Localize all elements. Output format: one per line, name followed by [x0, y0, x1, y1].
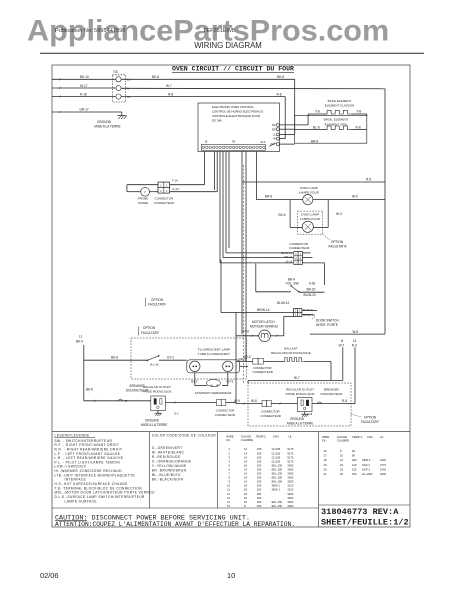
svg-text:R.-RED/ROUGE: R.-RED/ROUGE — [152, 455, 181, 459]
svg-text:MISE A LA TERRE: MISE A LA TERRE — [287, 422, 313, 426]
svg-text:CL/105: CL/105 — [272, 459, 281, 463]
svg-text:W-6: W-6 — [352, 195, 358, 199]
svg-text:PRISE MODULIQUE: PRISE MODULIQUE — [286, 392, 315, 396]
svg-text:2936: 2936 — [380, 472, 386, 476]
svg-text:BR: BR — [272, 127, 276, 131]
svg-text:EKL-150: EKL-150 — [272, 463, 283, 467]
svg-text:VOL. SW.: VOL. SW. — [286, 282, 300, 286]
svg-text:9175: 9175 — [287, 459, 293, 463]
svg-text:G.-GREEN/VERT: G.-GREEN/VERT — [152, 446, 183, 450]
svg-text:105: 105 — [257, 451, 262, 455]
svg-text:CSA: CSA — [367, 435, 373, 439]
svg-text:BALLAST: BALLAST — [284, 346, 298, 350]
svg-text:9175: 9175 — [287, 455, 293, 459]
svg-text:CONNECTOR: CONNECTOR — [253, 366, 272, 370]
svg-text:FLUORESCENT LAMP: FLUORESCENT LAMP — [198, 348, 230, 352]
svg-text:BK-6: BK-6 — [111, 356, 118, 360]
svg-text:Y-14: Y-14 — [172, 178, 178, 182]
svg-text:12: 12 — [227, 492, 230, 496]
svg-text:18: 18 — [244, 488, 247, 492]
svg-text:R-16: R-16 — [80, 93, 87, 97]
svg-text:CL/105: CL/105 — [272, 447, 281, 451]
svg-text:FIL: FIL — [226, 438, 230, 442]
svg-text:GL-1062: GL-1062 — [362, 472, 373, 476]
svg-text:BK-9: BK-9 — [76, 339, 83, 343]
svg-text:CONTROLE ELECTRONIQUE FOUR: CONTROLE ELECTRONIQUE FOUR — [212, 114, 260, 118]
svg-text:FIL: FIL — [322, 439, 326, 443]
svg-text:14: 14 — [227, 500, 230, 504]
svg-text:SONDE: SONDE — [138, 201, 148, 205]
svg-text:MISE A LA TERRE: MISE A LA TERRE — [141, 423, 167, 427]
svg-text:200: 200 — [352, 458, 357, 462]
svg-text:BL-8: BL-8 — [313, 126, 320, 130]
svg-text:T.B.: T.B. — [113, 70, 119, 74]
svg-text:G-14: G-14 — [286, 260, 293, 264]
svg-text:G-1: G-1 — [174, 412, 179, 416]
svg-text:13: 13 — [227, 496, 230, 500]
svg-text:16: 16 — [244, 496, 247, 500]
svg-text:150: 150 — [257, 504, 262, 508]
svg-text:Y-8: Y-8 — [356, 110, 361, 114]
svg-text:14: 14 — [244, 455, 247, 459]
svg-text:G-8: G-8 — [308, 412, 313, 416]
svg-text:14: 14 — [244, 472, 247, 476]
svg-text:BK-8: BK-8 — [277, 75, 284, 79]
svg-text:105: 105 — [257, 459, 262, 463]
svg-text:3003: 3003 — [287, 476, 293, 480]
svg-text:150: 150 — [257, 480, 262, 484]
svg-text:OPTION: OPTION — [364, 416, 377, 420]
svg-text:BK-10: BK-10 — [80, 75, 89, 79]
svg-text:BK-6: BK-6 — [279, 213, 286, 217]
svg-text:150: 150 — [257, 476, 262, 480]
svg-text:W-17: W-17 — [80, 84, 88, 88]
svg-text:UL: UL — [380, 435, 384, 439]
svg-text:16: 16 — [340, 458, 343, 462]
svg-text:BROIL ELEMENT: BROIL ELEMENT — [324, 118, 349, 122]
svg-text:CONNECTOR: CONNECTOR — [216, 409, 235, 413]
svg-text:Y-8: Y-8 — [315, 110, 320, 114]
svg-text:3122: 3122 — [380, 458, 386, 462]
svg-text:90: 90 — [352, 454, 355, 458]
svg-text:W-7: W-7 — [294, 376, 300, 380]
svg-text:10: 10 — [227, 571, 235, 580]
svg-text:BL/W-20: BL/W-20 — [304, 293, 316, 297]
svg-text:9175: 9175 — [287, 447, 293, 451]
svg-text:2773: 2773 — [380, 463, 386, 467]
svg-text:3122: 3122 — [287, 484, 293, 488]
svg-text:BAKE ELEMENT: BAKE ELEMENT — [328, 99, 352, 103]
svg-text:OVEN LAMP: OVEN LAMP — [300, 186, 318, 190]
svg-text:20: 20 — [340, 472, 343, 476]
svg-text:BREAKER: BREAKER — [324, 388, 340, 392]
svg-text:BK-6: BK-6 — [86, 388, 93, 392]
svg-text:PRISE MODULIQUE: PRISE MODULIQUE — [143, 390, 172, 394]
svg-text:150: 150 — [257, 463, 262, 467]
svg-text:OPTION: OPTION — [143, 326, 156, 330]
svg-text:OPTION: OPTION — [151, 298, 164, 302]
svg-text:CAN: CAN — [273, 435, 279, 439]
svg-text:14: 14 — [244, 451, 247, 455]
svg-text:TEF351EWB: TEF351EWB — [203, 28, 236, 34]
svg-text:MOTEUR VERROU: MOTEUR VERROU — [250, 324, 279, 328]
svg-text:FACULTATIF: FACULTATIF — [329, 245, 347, 249]
svg-text:SEW-1: SEW-1 — [362, 458, 371, 462]
svg-text:17: 17 — [324, 454, 327, 458]
svg-text:200: 200 — [257, 488, 262, 492]
svg-text:OR-14: OR-14 — [284, 255, 293, 259]
svg-text:BL.-BLUE/BLEU: BL.-BLUE/BLEU — [152, 473, 181, 477]
svg-text:GROUND: GROUND — [145, 418, 160, 422]
svg-text:BK.-BLACK/NOIR: BK.-BLACK/NOIR — [152, 477, 184, 481]
svg-text:R-8: R-8 — [277, 92, 282, 96]
svg-text:SEW 1: SEW 1 — [272, 488, 281, 492]
svg-text:3122: 3122 — [287, 488, 293, 492]
svg-text:14: 14 — [244, 459, 247, 463]
svg-text:W-7: W-7 — [339, 344, 345, 348]
svg-text:21: 21 — [324, 472, 327, 476]
svg-text:24: 24 — [340, 463, 343, 467]
svg-text:EKL-150: EKL-150 — [272, 500, 283, 504]
svg-text:DOOR SWITCH: DOOR SWITCH — [316, 319, 339, 323]
svg-text:SGF-1: SGF-1 — [362, 463, 370, 467]
svg-text:16: 16 — [324, 449, 327, 453]
svg-text:MOTOR LATCH: MOTOR LATCH — [252, 320, 275, 324]
svg-text:14: 14 — [244, 476, 247, 480]
svg-text:9175: 9175 — [287, 451, 293, 455]
svg-text:14: 14 — [244, 480, 247, 484]
svg-text:3452: 3452 — [287, 496, 293, 500]
svg-text:CONNECTEUR: CONNECTEUR — [154, 201, 174, 205]
svg-text:105: 105 — [257, 455, 262, 459]
svg-text:R-8: R-8 — [356, 126, 361, 130]
svg-text:WIRING DIAGRAM: WIRING DIAGRAM — [194, 41, 262, 50]
svg-text:Y.-YELLOW/JAUNE: Y.-YELLOW/JAUNE — [152, 464, 187, 468]
svg-text:IN: IN — [273, 137, 276, 141]
svg-text:20: 20 — [324, 467, 327, 471]
svg-text:105: 105 — [257, 447, 262, 451]
svg-text:Publication No: 5995447898: Publication No: 5995447898 — [55, 28, 125, 34]
svg-text:BL/W-14: BL/W-14 — [277, 301, 289, 305]
svg-text:SEW 1: SEW 1 — [272, 484, 281, 488]
svg-text:LAMPE FOUR: LAMPE FOUR — [300, 217, 321, 221]
svg-text:W.-WHITE/BLANC: W.-WHITE/BLANC — [152, 450, 185, 454]
svg-text:3003: 3003 — [287, 463, 293, 467]
svg-text:SHEET/FEUILLE:1/2: SHEET/FEUILLE:1/2 — [321, 518, 409, 528]
svg-text:GROUND: GROUND — [290, 417, 305, 421]
svg-text:200: 200 — [257, 484, 262, 488]
svg-text:STARTER? DEMARREUR: STARTER? DEMARREUR — [195, 391, 232, 395]
svg-text:B.L.W..: B.L.W.. — [150, 363, 160, 367]
svg-text:FACULTATIF: FACULTATIF — [361, 420, 379, 424]
svg-text:DISJONCTEUR: DISJONCTEUR — [321, 392, 344, 396]
svg-text:EKL-150: EKL-150 — [272, 504, 283, 508]
svg-text:TUBE FLUORESCENT: TUBE FLUORESCENT — [198, 352, 230, 356]
svg-text:3452: 3452 — [287, 492, 293, 496]
svg-text:GR-17: GR-17 — [80, 108, 90, 112]
svg-text:250: 250 — [257, 496, 262, 500]
svg-text:FACULTATIF: FACULTATIF — [148, 303, 166, 307]
svg-text:LEGEND/LEGENDE: LEGEND/LEGENDE — [55, 433, 90, 437]
svg-text:194: 194 — [352, 472, 357, 476]
svg-text:R-5: R-5 — [366, 178, 371, 182]
svg-text:R-8: R-8 — [342, 399, 347, 403]
svg-text:15: 15 — [227, 504, 230, 508]
svg-text:02/06: 02/06 — [40, 571, 59, 580]
svg-text:3003: 3003 — [287, 500, 293, 504]
svg-text:REGULATEUR PUISSANCE: REGULATEUR PUISSANCE — [271, 351, 311, 355]
svg-text:O.-ORANGE/ORANGE: O.-ORANGE/ORANGE — [152, 459, 192, 463]
svg-text:GY-1: GY-1 — [167, 356, 174, 360]
svg-text:L2: L2 — [353, 339, 357, 343]
svg-text:R-9: R-9 — [352, 344, 357, 348]
svg-text:CL/105: CL/105 — [272, 451, 281, 455]
svg-text:ATTENTION:COUPEZ L'ALIMENTATIO: ATTENTION:COUPEZ L'ALIMENTATION AVANT D'… — [55, 521, 295, 528]
svg-text:BK/W-14: BK/W-14 — [257, 308, 270, 312]
svg-text:L1: L1 — [79, 335, 83, 339]
svg-text:ELEMENT CUISSON: ELEMENT CUISSON — [325, 104, 355, 108]
svg-text:OVEN CIRCUIT // CIRCUIT DU FOU: OVEN CIRCUIT // CIRCUIT DU FOUR — [172, 66, 294, 73]
svg-text:CONNECTEUR: CONNECTEUR — [261, 414, 281, 418]
svg-text:BK-8: BK-8 — [152, 75, 159, 79]
svg-text:t°: t° — [144, 190, 146, 194]
svg-text:BR-6: BR-6 — [265, 195, 272, 199]
svg-text:120: 120 — [352, 463, 357, 467]
svg-text:GR-5: GR-5 — [243, 355, 251, 359]
svg-text:CONNECTEUR: CONNECTEUR — [253, 370, 273, 374]
svg-text:FACULTATIF: FACULTATIF — [141, 331, 159, 335]
svg-text:250: 250 — [257, 492, 262, 496]
svg-text:SGF-1: SGF-1 — [362, 467, 370, 471]
svg-text:DLS: DLS — [260, 140, 265, 144]
svg-text:BA: BA — [272, 123, 276, 127]
svg-text:OPTION: OPTION — [331, 240, 344, 244]
svg-text:CONTROL DE HORNO ELECTRONICO: CONTROL DE HORNO ELECTRONICO — [212, 110, 264, 114]
svg-text:GY-6: GY-6 — [242, 330, 249, 334]
svg-text:W-3: W-3 — [336, 212, 342, 216]
svg-text:3142: 3142 — [380, 467, 386, 471]
svg-text:W-5: W-5 — [353, 330, 359, 334]
svg-text:20: 20 — [244, 500, 247, 504]
svg-text:LAMPE FOUR: LAMPE FOUR — [299, 191, 320, 195]
svg-text:EKL-150: EKL-150 — [272, 472, 283, 476]
svg-text:10: 10 — [340, 454, 343, 458]
svg-text:REGULAR OUTLET: REGULAR OUTLET — [286, 388, 314, 392]
svg-text:318046773 REV:A: 318046773 REV:A — [321, 507, 399, 517]
svg-text:150: 150 — [352, 467, 357, 471]
svg-text:BR.-BROWN/BRUN: BR.-BROWN/BRUN — [152, 468, 187, 472]
svg-text:18: 18 — [340, 467, 343, 471]
svg-text:EKL-150: EKL-150 — [272, 467, 283, 471]
svg-text:18: 18 — [324, 458, 327, 462]
svg-text:150: 150 — [257, 467, 262, 471]
svg-text:REGULAR OUTLET: REGULAR OUTLET — [143, 385, 171, 389]
svg-text:G-14: G-14 — [172, 187, 179, 191]
svg-text:3003: 3003 — [287, 472, 293, 476]
svg-text:19: 19 — [324, 463, 327, 467]
svg-text:CONNECTEUR: CONNECTEUR — [289, 246, 309, 250]
svg-text:BR-20: BR-20 — [307, 287, 316, 291]
svg-text:GY-1: GY-1 — [191, 379, 198, 383]
svg-text:60: 60 — [352, 449, 355, 453]
svg-text:14: 14 — [244, 467, 247, 471]
svg-text:UL: UL — [289, 435, 293, 439]
svg-text:6-30: 6-30 — [309, 282, 316, 286]
svg-text:CL/105: CL/105 — [272, 455, 281, 459]
svg-text:150: 150 — [257, 500, 262, 504]
svg-text:TEMP.C: TEMP.C — [256, 435, 266, 439]
svg-text:BR A: BR A — [288, 277, 296, 281]
svg-text:EKL-150: EKL-150 — [272, 480, 283, 484]
svg-text:COLOR CODE/CODE DE COULEUR: COLOR CODE/CODE DE COULEUR — [152, 434, 217, 438]
svg-text:CONNECTOR: CONNECTOR — [261, 410, 280, 414]
svg-text:LAMPE-SURFACE: LAMPE-SURFACE — [65, 499, 97, 503]
svg-text:TB: TB — [232, 141, 236, 144]
svg-text:18: 18 — [244, 463, 247, 467]
svg-text:BR-8: BR-8 — [311, 139, 318, 143]
svg-text:EKL-150: EKL-150 — [272, 476, 283, 480]
svg-text:CONNECTEUR: CONNECTEUR — [215, 413, 235, 417]
svg-text:18: 18 — [244, 492, 247, 496]
svg-text:3003: 3003 — [287, 480, 293, 484]
svg-text:150: 150 — [257, 472, 262, 476]
svg-text:W-8: W-8 — [251, 399, 257, 403]
svg-text:3003: 3003 — [287, 467, 293, 471]
svg-text:CONNECTOR: CONNECTOR — [290, 242, 309, 246]
svg-text:W-7: W-7 — [166, 84, 172, 88]
svg-text:EG 346: EG 346 — [212, 119, 222, 123]
svg-text:R-8: R-8 — [168, 93, 173, 97]
svg-text:14: 14 — [244, 447, 247, 451]
svg-text:10: 10 — [227, 484, 230, 488]
svg-text:MISE A LA TERRE: MISE A LA TERRE — [94, 124, 120, 128]
svg-text:18: 18 — [244, 484, 247, 488]
svg-text:TEMP C: TEMP C — [352, 435, 363, 439]
svg-text:3003: 3003 — [287, 504, 293, 508]
svg-text:CALIBRE: CALIBRE — [241, 438, 253, 442]
svg-text:INTER. PORTE: INTER. PORTE — [316, 323, 338, 327]
svg-text:ELECTRONIC OVEN CONTROL,: ELECTRONIC OVEN CONTROL, — [212, 105, 255, 109]
svg-text:CAL/BRE: CAL/BRE — [337, 439, 349, 443]
